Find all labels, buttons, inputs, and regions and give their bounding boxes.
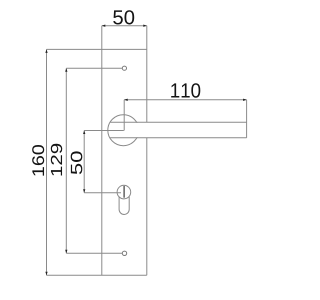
rose circle [108,115,139,146]
label 160 [32,145,44,176]
ext 110 left [123,100,125,131]
dim 50 vertical [83,131,85,193]
tick dim50v bottom [83,189,85,193]
ext 160 top [47,48,147,50]
tick dim160 bottom [45,272,47,276]
tick dim50v top [83,131,85,135]
backplate right edge lower [146,138,148,275]
tick dim129 top [65,68,67,72]
tick dim50 right [143,25,147,27]
label 129 [51,144,62,176]
tick dim50 left [102,25,106,27]
ext 50v bottom [84,192,121,194]
keyhole slot [123,186,125,198]
tick dim129 bottom [65,250,67,254]
bottom screw hole [122,251,126,255]
backplate bottom edge / extension line 160 bottom [47,274,147,276]
ext 129 bottom [66,252,122,254]
dim 129 [65,68,67,253]
tick dim110 left [124,99,128,101]
keyhole cylinder circle [117,185,131,199]
tick dim160 top [45,49,47,53]
dim 160 [46,49,48,275]
ext 110 right / bar end cap [246,100,248,138]
ext 129 top [66,67,122,69]
backplate top edge / dimension line 50 [102,25,147,27]
dimension and extension lines [47,49,247,275]
backplate left edge [101,26,103,276]
label 50top [113,10,134,24]
lever bar [110,122,247,138]
label 110 [171,83,200,98]
dim 110 [124,99,246,101]
keyhole body [119,197,129,215]
tick dim110 right [243,99,247,101]
top screw hole [122,66,126,70]
ext 50v top [84,130,124,132]
backplate right edge upper [146,26,148,123]
label 50v [71,151,83,174]
